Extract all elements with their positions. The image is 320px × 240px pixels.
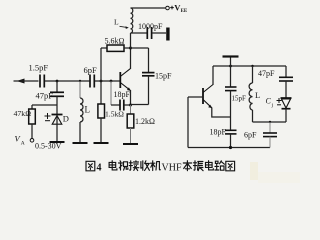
caption char 接 — [129, 161, 139, 171]
tank bottom wire — [253, 121, 287, 123]
svg-text:1.5kΩ: 1.5kΩ — [105, 110, 124, 119]
wire node A — [45, 80, 90, 82]
ground (varactor) — [50, 141, 65, 143]
svg-text:VHF: VHF — [162, 163, 182, 174]
inductor L (tank, left) — [80, 81, 83, 143]
svg-text:6pF: 6pF — [244, 131, 257, 140]
caption char 电 (2) — [206, 161, 214, 170]
resistor R1 47kΩ (tuning voltage) — [29, 105, 36, 139]
supply rail wire — [131, 7, 166, 9]
svg-text:L: L — [114, 18, 119, 27]
cream patch bottom-right — [250, 162, 258, 180]
ground (15k) — [94, 142, 109, 144]
output arrow (RF out) — [14, 79, 39, 84]
svg-text:A: A — [21, 141, 25, 147]
caption char 图 — [86, 161, 95, 171]
wire to 47k — [32, 104, 57, 106]
label +VEE — [170, 6, 174, 10]
capacitor 6pF (series) — [90, 75, 94, 88]
caption char 图 (2) — [226, 161, 235, 171]
junction dot tank bottom — [269, 121, 271, 123]
caption char 路 — [215, 161, 225, 170]
capacitor 1000pF (decoupling) — [131, 27, 170, 41]
terminal VA circle — [30, 139, 34, 143]
inductor L (collector RFC) — [131, 8, 133, 48]
node collector junction dot — [129, 47, 132, 50]
capacitor 15pF (right divider top) — [225, 66, 237, 115]
resistor R4 1.2kΩ (emitter) — [127, 105, 134, 144]
varactor diode D — [52, 115, 63, 143]
wire Q1 collector — [130, 48, 132, 69]
svg-text:1.2kΩ: 1.2kΩ — [135, 117, 155, 126]
capacitor 47pF (right) — [279, 66, 293, 98]
polarity mark ± (Cj) — [277, 98, 282, 105]
svg-text:18pF: 18pF — [114, 90, 131, 99]
svg-text:L: L — [85, 105, 91, 115]
svg-text:4: 4 — [97, 163, 102, 174]
ground (1.2k) — [123, 143, 138, 145]
junction dot top mid — [229, 65, 232, 68]
transistor Q1 (oscillator, NPN) — [120, 69, 131, 91]
bottom rail — [188, 147, 270, 149]
wire Q2 base — [188, 96, 203, 98]
wire Q2 collector up — [212, 66, 214, 85]
svg-text:6pF: 6pF — [84, 65, 98, 75]
caption char 机 — [151, 161, 161, 171]
wire base to bottom rail — [187, 97, 189, 148]
caption char 本 — [183, 161, 191, 171]
wire base of Q1 — [95, 80, 120, 82]
capacitor 18pF (base-emitter) — [111, 81, 131, 111]
junction dot L tap — [79, 80, 81, 82]
varactor Cj — [281, 98, 292, 122]
junction dot top L — [251, 65, 253, 67]
svg-text:47pF: 47pF — [36, 91, 54, 101]
junction dot bias divider — [100, 80, 103, 83]
capacitor 18pF (right divider bottom) — [225, 115, 237, 148]
junction dot 18pF branch — [110, 80, 113, 83]
junction dot bottom — [229, 146, 232, 149]
svg-text:47pF: 47pF — [258, 69, 275, 78]
polarity mark ± — [45, 113, 51, 121]
ground (tank L) — [73, 142, 88, 144]
svg-text:15pF: 15pF — [232, 95, 247, 103]
node A junction dot — [56, 80, 59, 83]
svg-text:15pF: 15pF — [155, 72, 172, 81]
capacitor 1.5pF (series) — [40, 75, 44, 88]
caption char 视 — [119, 161, 128, 170]
svg-text:1000pF: 1000pF — [138, 22, 163, 31]
inductor L (tank, right) — [249, 66, 252, 122]
caption char 电 — [109, 161, 117, 170]
svg-text:1.5pF: 1.5pF — [29, 63, 49, 73]
svg-text:L: L — [255, 90, 260, 100]
capacitor 15pF (collector-emitter) — [131, 48, 155, 105]
svg-text:D: D — [63, 114, 69, 124]
svg-text:5.6kΩ: 5.6kΩ — [105, 37, 125, 46]
terminal +VEE circle — [166, 6, 170, 10]
svg-text:EE: EE — [181, 9, 188, 14]
node emitter junction dot — [129, 104, 132, 107]
resistor R3 5.6kΩ (feedback bias) — [101, 45, 131, 51]
svg-text:18pF: 18pF — [210, 128, 227, 137]
wire Q2 emitter — [212, 108, 231, 118]
resistor R2 1.5kΩ (base-ground) — [98, 81, 105, 143]
svg-text:47kΩ: 47kΩ — [14, 109, 32, 118]
ground (top) — [223, 57, 239, 67]
capacitor 47pF (shunt, to varactor) — [50, 81, 64, 115]
transistor Q2 (equivalent circuit, NPN) — [203, 85, 213, 109]
caption char 振 — [194, 161, 204, 171]
capacitor 6pF (feedback) — [263, 122, 277, 148]
wire Q1 emitter — [130, 90, 132, 105]
top rail (grounded) — [213, 65, 286, 67]
wire bias column — [100, 48, 102, 81]
caption char 收 — [141, 161, 150, 171]
